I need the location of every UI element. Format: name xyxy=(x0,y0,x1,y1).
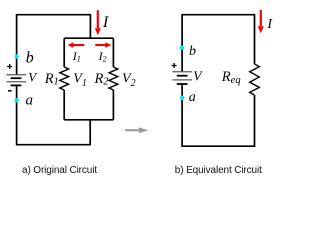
resistor Req xyxy=(250,64,260,95)
svg-text:I: I xyxy=(102,12,110,31)
wire inner box right edge xyxy=(112,38,114,120)
resistor R2 xyxy=(109,67,118,90)
node a dot right xyxy=(180,96,184,100)
svg-text:a) Original Circuit: a) Original Circuit xyxy=(22,165,97,176)
node b dot right xyxy=(180,46,184,50)
wire left circuit bottom xyxy=(17,85,91,144)
wire left circuit top xyxy=(17,15,91,75)
svg-text:V2: V2 xyxy=(122,72,136,89)
gray equivalence arrow xyxy=(125,129,139,131)
current arrow I right xyxy=(260,10,262,26)
battery V left: long plate 1 xyxy=(6,74,26,76)
svg-text:V: V xyxy=(193,68,203,83)
battery V right: short plate 2 xyxy=(177,83,188,85)
battery V left minus sign xyxy=(8,90,12,92)
svg-text:Req: Req xyxy=(221,69,241,86)
wire right circuit top xyxy=(182,15,254,72)
battery V left: long plate 2 xyxy=(6,81,26,83)
battery V left: short plate 1 xyxy=(11,77,22,79)
svg-text:b: b xyxy=(26,49,34,66)
current arrow I2 xyxy=(95,44,105,46)
svg-text:I1: I1 xyxy=(72,49,81,64)
svg-text:V1: V1 xyxy=(73,72,87,89)
svg-text:R2: R2 xyxy=(94,71,109,88)
inner box top edge xyxy=(64,37,113,39)
svg-text:b: b xyxy=(189,44,196,59)
svg-text:V: V xyxy=(28,70,38,85)
battery V left: short plate 2 xyxy=(11,84,22,86)
battery V left plus sign xyxy=(7,64,12,69)
node a dot left xyxy=(14,98,18,102)
svg-text:I: I xyxy=(266,17,273,32)
current arrow I left xyxy=(97,10,99,28)
battery V right: long plate 2 xyxy=(172,79,192,81)
battery V right: short plate 1 xyxy=(177,75,188,77)
battery V right: long plate 1 xyxy=(172,71,192,73)
wire right circuit bottom xyxy=(182,84,254,146)
svg-text:I2: I2 xyxy=(98,49,107,64)
battery V right plus sign xyxy=(172,63,177,68)
current arrow I1 xyxy=(73,44,84,46)
svg-text:b) Equivalent Circuit: b) Equivalent Circuit xyxy=(175,165,262,176)
svg-text:a: a xyxy=(26,92,34,108)
wire inner box left edge xyxy=(63,38,65,120)
resistor R1 xyxy=(60,67,69,90)
svg-text:a: a xyxy=(189,90,196,105)
svg-text:R1: R1 xyxy=(44,71,59,88)
node b dot left xyxy=(14,54,18,58)
inner box bottom edge xyxy=(64,119,113,121)
